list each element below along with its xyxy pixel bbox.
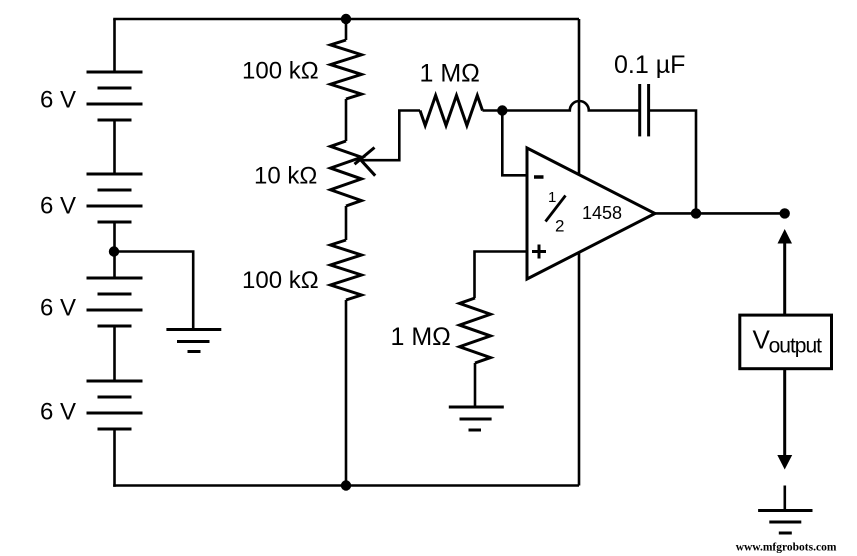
wire R4 to ground — [474, 363, 477, 407]
svg-text:1458: 1458 — [582, 203, 622, 223]
wire midpoint to ground — [114, 252, 193, 330]
wire right vertical upper (V+ supply to op-amp top edge) — [578, 19, 581, 175]
svg-text:1 MΩ: 1 MΩ — [391, 323, 451, 351]
wire arrow shaft upper — [783, 243, 786, 316]
node inverting input junction — [497, 105, 507, 115]
battery B2 (6 V) — [87, 174, 143, 222]
resistor R1 100 kOhm — [331, 40, 362, 99]
label Voutput — [753, 325, 823, 358]
resistor R2 100 kOhm — [331, 240, 362, 300]
battery B4 (6 V) — [87, 381, 143, 429]
wire arrow shaft lower — [783, 369, 786, 456]
node top junction — [341, 14, 351, 24]
ground (noninverting input) — [449, 407, 504, 430]
wire top rail to R1 — [345, 19, 348, 40]
battery B1 (6 V) — [87, 72, 143, 120]
wire pot to R2 — [345, 206, 348, 240]
pot wiper arrow — [355, 148, 376, 176]
resistor R3 1 MOhm (series input) — [420, 96, 483, 126]
node battery midpoint junction — [109, 246, 119, 256]
svg-text:100 kΩ: 100 kΩ — [242, 58, 319, 85]
svg-text:1 MΩ: 1 MΩ — [420, 60, 480, 88]
wire noninverting input — [475, 252, 528, 299]
wire node to inverting input — [502, 111, 527, 176]
potentiometer 10 kOhm — [331, 141, 362, 206]
node feedback/output junction — [691, 208, 701, 218]
op-amp fraction slash — [546, 196, 566, 222]
wire capacitor to output — [649, 111, 696, 214]
op-amp U1 triangle — [527, 148, 655, 279]
svg-text:6 V: 6 V — [40, 87, 76, 114]
wire left vertical to battery — [113, 19, 116, 72]
wire R1 to potentiometer — [345, 99, 348, 141]
wire B3 to B4 — [113, 326, 116, 381]
svg-text:1: 1 — [548, 189, 556, 206]
svg-text:6 V: 6 V — [40, 399, 76, 426]
svg-text:2: 2 — [555, 217, 564, 236]
op-amp label 1/2 1458 — [548, 189, 622, 236]
wire top rail — [113, 18, 579, 21]
svg-text:100 kΩ: 100 kΩ — [242, 267, 319, 294]
wire bottom rail — [113, 484, 579, 487]
svg-text:6 V: 6 V — [40, 295, 76, 322]
svg-text:output: output — [769, 335, 823, 358]
wire R2 to bottom rail — [345, 300, 348, 486]
op-amp plus sign — [532, 245, 546, 259]
ground (output reference) — [783, 486, 786, 511]
svg-text:www.mfgrobots.com: www.mfgrobots.com — [736, 542, 837, 554]
ground (battery midpoint) — [166, 330, 221, 352]
node output measurement junction — [780, 208, 790, 218]
wire B1 to B2 — [113, 120, 116, 174]
svg-text:10 kΩ: 10 kΩ — [254, 163, 317, 190]
wire R3 to node — [483, 109, 503, 112]
battery B3 (6 V) — [87, 278, 143, 326]
wire right vertical lower (V- supply from op-amp bottom edge) — [578, 252, 581, 485]
capacitor C1 0.1 uF — [640, 84, 649, 136]
resistor R4 1 MOhm (to ground) — [460, 298, 491, 363]
svg-text:6 V: 6 V — [40, 193, 76, 220]
wire op-amp output — [655, 212, 785, 215]
arrow down (to ground) — [777, 455, 792, 470]
Voutput box — [740, 315, 832, 369]
node bottom junction — [341, 480, 351, 490]
wire wiper to R3 — [361, 111, 420, 161]
svg-text:0.1 µF: 0.1 µF — [614, 51, 685, 79]
arrow up (to output node) — [778, 229, 793, 244]
wire B2 to B3 — [113, 222, 116, 278]
wire feedback with hop over supply line — [502, 101, 639, 110]
op-amp minus sign — [534, 175, 544, 179]
wire B4 to bottom rail — [113, 429, 116, 487]
